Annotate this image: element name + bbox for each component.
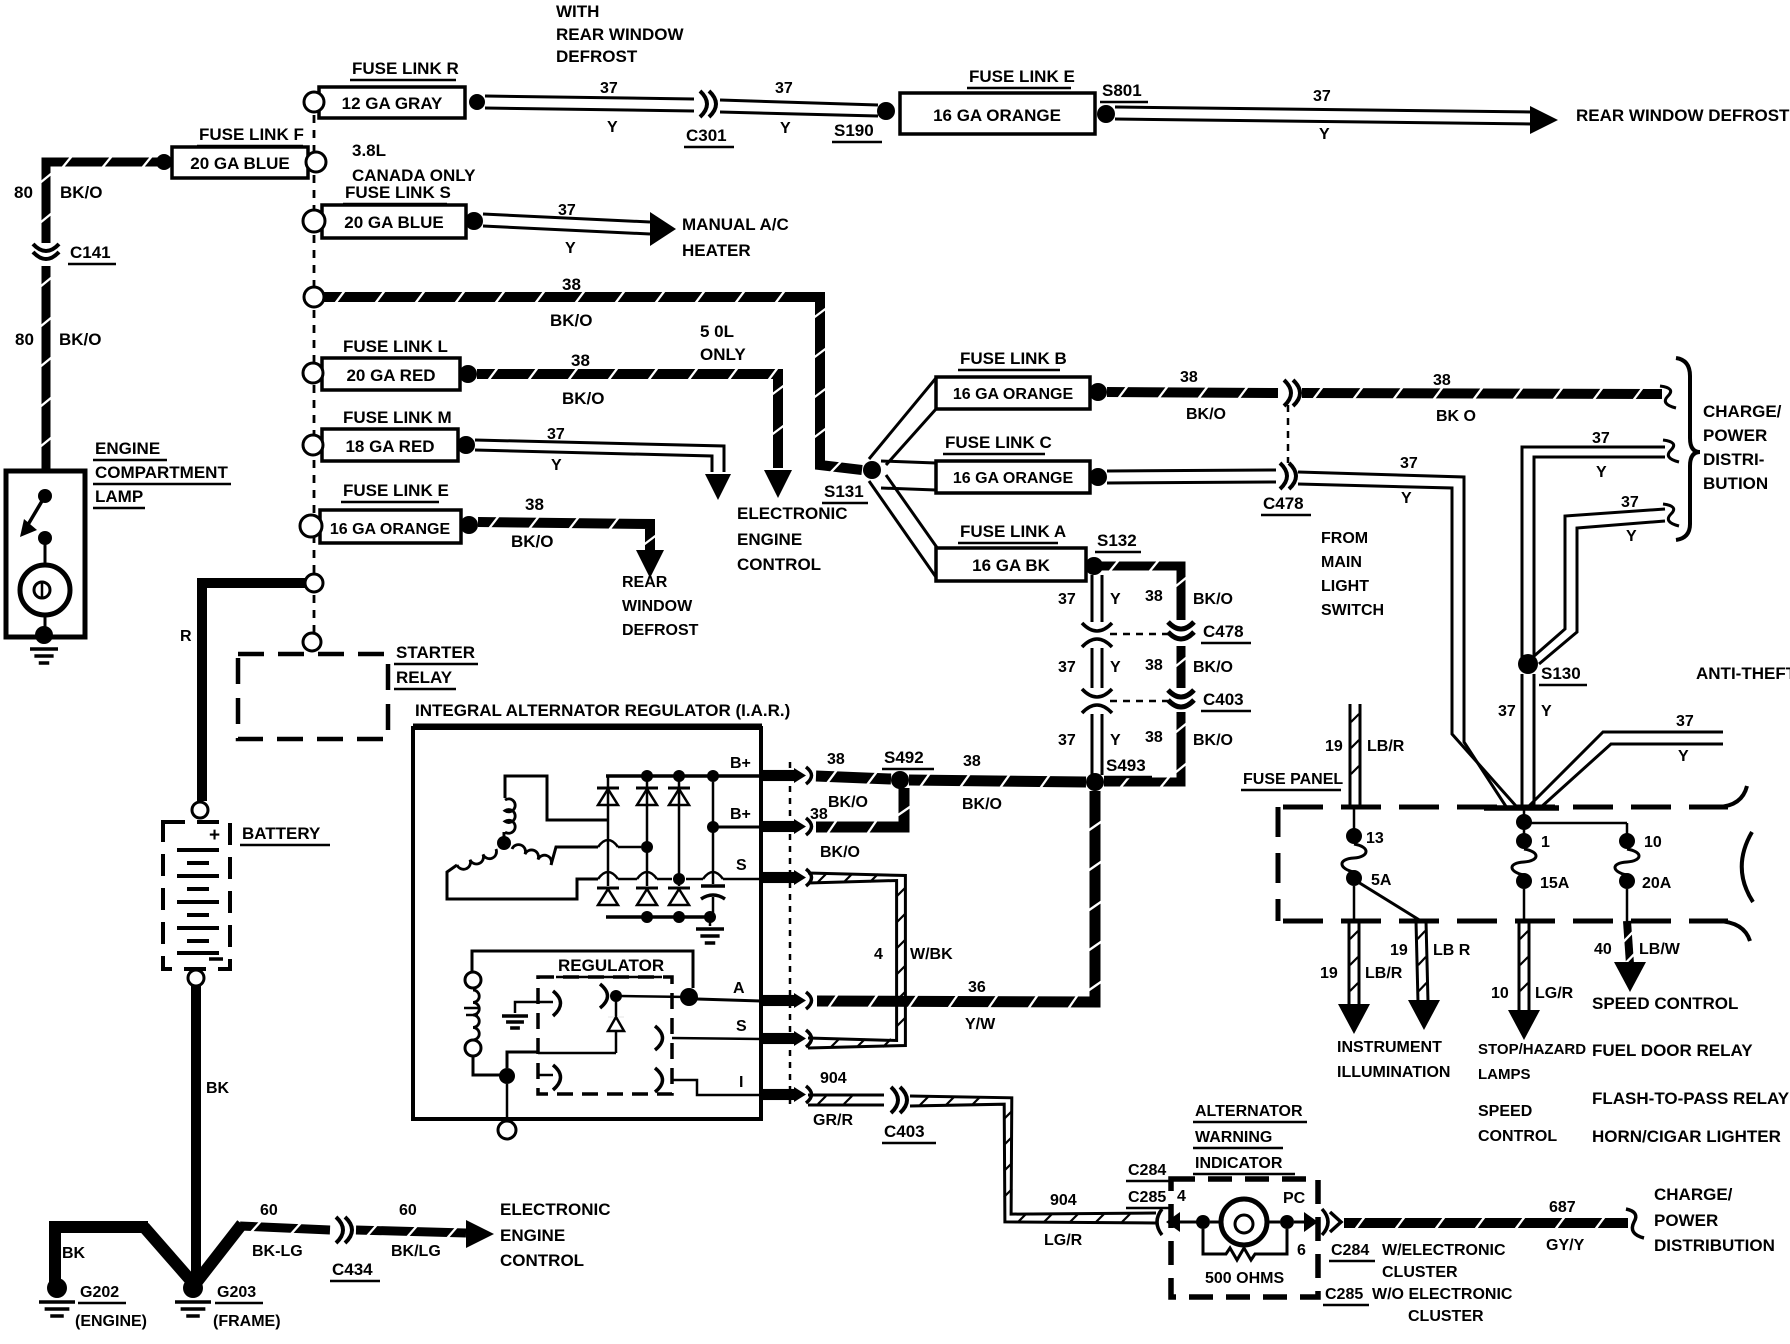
svg-text:FUSE LINK C: FUSE LINK C [945,433,1052,452]
label C478 [1261,494,1311,515]
svg-text:REAR: REAR [622,574,668,591]
svg-text:37: 37 [775,80,793,97]
label S131 [822,482,868,503]
wire 37 Y S130 down to funnel [1522,674,1534,808]
wire 19 LB/R into fuse panel [1350,704,1360,806]
svg-text:38: 38 [562,275,581,294]
arrow to manual AC heater [650,212,676,246]
svg-text:4: 4 [874,946,883,963]
svg-text:BK: BK [62,1245,86,1262]
dashed link C478 between connectors [1287,405,1290,463]
svg-text:BK/O: BK/O [828,794,868,811]
ring terminal battery positive [192,802,208,818]
label S493 [1104,756,1152,777]
label 37 Y rear defrost [1313,88,1331,143]
label C434 [330,1260,380,1281]
svg-text:38: 38 [1180,369,1198,386]
svg-text:C478: C478 [1263,494,1304,513]
end hook 687 wire [1626,1209,1644,1238]
note 3.8L CANADA ONLY [352,141,476,185]
junction dot fuse link E left output [460,516,478,534]
svg-text:W/ELECTRONIC: W/ELECTRONIC [1382,1242,1506,1259]
A terminal junction dot [680,988,698,1006]
svg-text:687: 687 [1549,1199,1576,1216]
label 38 BK/O main bus [550,275,593,330]
ground G202 [39,1278,75,1316]
connector dashed line at IAR terminals [789,762,792,1108]
svg-text:FUSE PANEL: FUSE PANEL [1243,771,1343,788]
label FUEL DOOR RELAY [1592,1041,1753,1060]
regulator diode [538,1001,624,1053]
label S492 [882,748,934,769]
regulator ground [502,1002,553,1028]
end hook wire A [1663,440,1679,462]
svg-text:C285: C285 [1128,1189,1166,1206]
svg-text:C403: C403 [1203,690,1244,709]
label 37 Y above funnel [1498,703,1552,720]
svg-text:10: 10 [1644,834,1662,851]
svg-text:STARTER: STARTER [396,643,475,662]
field coil [464,990,480,1040]
label 37 Y wire A [1592,430,1610,481]
engine compartment lamp box [6,471,85,637]
svg-text:CLUSTER: CLUSTER [1408,1308,1484,1325]
label 38 BK O right [1433,372,1476,425]
svg-text:SPEED: SPEED [1478,1103,1532,1120]
label 19 LB/R input [1325,738,1405,755]
phase junction dots [641,841,685,885]
svg-text:REAR WINDOW DEFROST: REAR WINDOW DEFROST [1576,106,1790,125]
svg-text:LB/W: LB/W [1639,941,1681,958]
svg-text:POWER: POWER [1654,1211,1718,1230]
svg-text:FUSE LINK L: FUSE LINK L [343,337,448,356]
svg-text:BK: BK [206,1080,230,1097]
svg-text:FROM: FROM [1321,530,1368,547]
label REAR WINDOW DEFROST [1576,106,1790,125]
svg-text:A: A [733,980,745,997]
ring terminal fuse link M [303,435,323,455]
svg-text:37: 37 [1498,703,1516,720]
label 37 Y after C478 [1400,455,1418,507]
svg-text:904: 904 [1050,1192,1077,1209]
svg-text:B+: B+ [730,755,751,772]
label BK ground bus [62,1245,86,1262]
wire to F terminal ring [506,1084,509,1121]
svg-text:80: 80 [15,330,34,349]
labels 37 Y 38 BK/O row2 [1058,657,1233,676]
wire 38 BK/O main bus to S131 [324,291,862,472]
svg-text:C284: C284 [1128,1162,1166,1179]
label 904 LG/R [1044,1192,1083,1249]
svg-text:C434: C434 [332,1260,373,1279]
fuse link S label [343,183,451,204]
labels 37 Y 38 BK/O row3 [1058,729,1233,749]
junction dot fuse link S output [465,212,483,230]
svg-text:38: 38 [1145,729,1163,746]
svg-text:CLUSTER: CLUSTER [1382,1264,1458,1281]
svg-text:37: 37 [1592,430,1610,447]
branch to fuse 10 [1530,823,1627,834]
label FLASH-TO-PASS RELAY [1592,1089,1790,1108]
svg-text:SWITCH: SWITCH [1321,602,1384,619]
wire 38 BK/O fuse link E to rear defrost [478,516,656,550]
label FROM MAIN LIGHT SWITCH [1321,530,1384,619]
svg-text:Y: Y [551,457,562,474]
label 37 Y anti-theft [1676,713,1694,765]
svg-text:ENGINE: ENGINE [95,439,160,458]
svg-text:BUTION: BUTION [1703,474,1768,493]
label HORN/CIGAR LIGHTER [1592,1127,1781,1146]
svg-text:ENGINE: ENGINE [500,1226,565,1245]
ring terminal 38 BK/O bus [304,287,324,307]
svg-text:BK O: BK O [1436,408,1476,425]
label INSTRUMENT ILLUMINATION [1337,1039,1450,1081]
wire 37 Y S130 to charge distribution [1522,447,1665,664]
rectifier bottom rail [606,911,716,923]
label 19 LB/R output1 [1320,965,1403,982]
svg-text:CONTROL: CONTROL [500,1251,584,1270]
label BATTERY [240,824,330,845]
svg-text:LB/R: LB/R [1367,738,1405,755]
svg-text:S130: S130 [1541,664,1581,683]
svg-text:904: 904 [820,1070,847,1087]
svg-text:Y: Y [1626,528,1637,545]
label SPEED CONTROL left [1478,1103,1557,1145]
svg-text:60: 60 [399,1202,417,1219]
svg-text:38: 38 [810,806,828,823]
svg-text:WINDOW: WINDOW [622,598,693,615]
svg-text:(ENGINE): (ENGINE) [75,1313,147,1330]
label 19 LB R output2 [1390,942,1471,959]
svg-text:38: 38 [963,753,981,770]
svg-text:FUEL DOOR RELAY: FUEL DOOR RELAY [1592,1041,1753,1060]
svg-text:CONTROL: CONTROL [737,555,821,574]
ring terminal fuse link S [303,210,325,232]
svg-text:16 GA ORANGE: 16 GA ORANGE [330,521,451,538]
connector C403 thin break [1082,689,1112,713]
ring terminal R wire at bus [305,574,323,592]
label C284 C285 left [1126,1162,1170,1208]
fuse link B 16 GA ORANGE [936,377,1090,409]
svg-text:BK/O: BK/O [820,844,860,861]
svg-text:BATTERY: BATTERY [242,824,321,843]
svg-text:FUSE LINK M: FUSE LINK M [343,408,452,427]
fuse link E 16 GA ORANGE left [320,510,461,543]
svg-text:BK/O: BK/O [511,532,554,551]
svg-text:G203: G203 [217,1284,256,1301]
rectifier top rail [606,770,761,782]
svg-text:BK/O: BK/O [59,330,102,349]
arrow fuse link M to EEC [705,474,731,500]
svg-text:20 GA BLUE: 20 GA BLUE [190,154,290,173]
wire BK battery to ground [191,986,201,1280]
svg-text:MAIN: MAIN [1321,554,1362,571]
label BK battery [206,1080,230,1097]
svg-text:HORN/CIGAR LIGHTER: HORN/CIGAR LIGHTER [1592,1127,1781,1146]
label C284 W/ELECTRONIC CLUSTER [1329,1242,1506,1281]
junction dot S801 [1097,105,1115,123]
svg-text:BK/O: BK/O [1193,659,1233,676]
rectifier diode columns [597,776,690,905]
connector C478 thin break [1082,623,1112,647]
wire 904 GR/R I terminal to C403 [808,1095,884,1105]
wire 80 BK/O below C141 [41,266,52,471]
junction dot fuse link R output [469,94,485,110]
label 1 [1541,834,1550,851]
svg-text:40: 40 [1594,941,1612,958]
wire 37 Y from C301 to S190 [720,100,878,116]
A junction to terminal [697,999,761,1001]
svg-text:CONTROL: CONTROL [1478,1128,1557,1145]
connector C403 I wire [891,1087,907,1113]
svg-text:Y/W: Y/W [965,1016,996,1033]
svg-text:Y: Y [1401,490,1412,507]
svg-text:BK/O: BK/O [962,796,1002,813]
pin label 6 [1297,1242,1306,1259]
svg-text:20 GA RED: 20 GA RED [346,366,435,385]
svg-text:C141: C141 [70,243,111,262]
fuse link F 20 GA BLUE [172,147,308,178]
ring terminal battery negative [188,970,204,986]
arrow to EEC bottom [466,1220,494,1248]
svg-text:Y: Y [1541,703,1552,720]
indicator resistor 500 ohms [1203,1229,1287,1260]
indicator bulb [1196,1199,1304,1245]
svg-text:S132: S132 [1097,531,1137,550]
svg-text:W/BK: W/BK [910,946,953,963]
svg-text:R: R [180,628,192,645]
lamp bulb [20,565,70,628]
label 37 Y second segment [775,80,793,137]
fuse link L label [341,337,448,358]
svg-text:ELECTRONIC: ELECTRONIC [500,1200,611,1219]
label 10 fuse [1644,834,1662,851]
svg-text:Y: Y [1110,591,1121,608]
svg-text:INSTRUMENT: INSTRUMENT [1337,1039,1442,1056]
label ANTI-THEFT [1696,664,1790,683]
svg-text:S493: S493 [1106,756,1146,775]
svg-text:ILLUMINATION: ILLUMINATION [1337,1064,1450,1081]
svg-text:BK/LG: BK/LG [391,1243,441,1260]
label ELECTRONIC ENGINE CONTROL bottom [500,1200,611,1270]
svg-text:S131: S131 [824,482,864,501]
regulator transistor T4 and I link [655,1068,761,1095]
svg-text:ALTERNATOR: ALTERNATOR [1195,1103,1303,1120]
connector C434 [336,1217,352,1243]
svg-text:GR/R: GR/R [813,1112,853,1129]
label 500 OHMS [1205,1270,1284,1287]
label 5A [1371,872,1392,889]
svg-text:BK-LG: BK-LG [252,1243,303,1260]
F terminal ring [498,1121,516,1139]
label 687 GY/Y [1546,1199,1585,1254]
ring terminal fuse link R [304,92,324,112]
svg-text:19: 19 [1325,738,1343,755]
svg-text:S: S [736,1018,747,1035]
regulator transistor T5 [538,1065,561,1090]
svg-text:BK/O: BK/O [1193,591,1233,608]
fuse link C 16 GA ORANGE [936,461,1090,493]
svg-text:CHARGE/: CHARGE/ [1703,402,1782,421]
regulator transistor T2 and A link [600,984,689,1008]
label 38 BK/O fuse link L [562,351,605,408]
fuse link R 12 GA GRAY [319,87,465,118]
S131 fan branches [869,378,938,580]
label 80 BK/O lower [15,330,102,349]
wire 37 Y to C301 [485,96,694,111]
wire 80 BK/O from fuse link F to engine compartment lamp [41,157,164,244]
svg-text:BK/O: BK/O [60,183,103,202]
stator coil left [447,849,598,899]
svg-text:WARNING: WARNING [1195,1129,1272,1146]
terminal S lower [736,1018,812,1047]
terminal I [739,1074,812,1103]
svg-text:G202: G202 [80,1284,119,1301]
svg-text:13: 13 [1366,830,1384,847]
arrow instrument illumination 2 [1408,1000,1440,1030]
label FUSE PANEL [1241,771,1343,790]
svg-text:16 GA ORANGE: 16 GA ORANGE [953,470,1074,487]
svg-text:ENGINE: ENGINE [737,530,802,549]
rectifier ground [696,917,724,943]
svg-text:37: 37 [1058,591,1076,608]
svg-text:12 GA GRAY: 12 GA GRAY [342,94,443,113]
connector chevrons on 38 column at C478 [1168,622,1194,639]
label STARTER RELAY [394,643,478,689]
charge power distribution brace [1676,358,1700,540]
fuse link M label [341,408,452,429]
alternator warning indicator dashed box [1171,1179,1318,1297]
svg-text:LG/R: LG/R [1535,985,1574,1002]
svg-text:DISTRIBUTION: DISTRIBUTION [1654,1236,1775,1255]
wire 38 BK/O S132 down to S493 [1098,561,1187,788]
ground G203 [175,1278,211,1316]
arrow stop hazard [1508,1010,1540,1040]
svg-text:LB/R: LB/R [1365,965,1403,982]
svg-text:ELECTRONIC: ELECTRONIC [737,504,848,523]
junction dot fuse link L output [459,365,477,383]
wire 10 LG/R stop hazard [1519,921,1529,1010]
label CHARGE/POWER DISTRI-BUTION [1703,402,1782,493]
connector C141 [33,244,59,259]
wire 19 LB R second [1416,921,1428,1002]
arrow speed control [1614,962,1646,992]
note WITH REAR WINDOW DEFROST [556,2,684,66]
fuse 1 15A [1512,822,1536,921]
svg-text:GY/Y: GY/Y [1546,1237,1585,1254]
fuse 10 20A [1615,833,1639,921]
svg-text:BK/O: BK/O [1193,732,1233,749]
svg-text:16 GA ORANGE: 16 GA ORANGE [953,386,1074,403]
stator coil right [512,845,598,865]
svg-text:Y: Y [1596,464,1607,481]
junction dot S132 [1085,557,1103,575]
fuse link S 20 GA BLUE [322,205,466,238]
svg-text:16 GA BK: 16 GA BK [972,556,1051,575]
svg-text:37: 37 [1400,455,1418,472]
label 80 BK/O upper [14,183,103,202]
label 15A [1540,875,1570,892]
wire 37 Y S130 branch B [1533,509,1665,664]
label 38 BK/O B+2 [810,806,860,861]
svg-text:DEFROST: DEFROST [556,47,638,66]
svg-text:80: 80 [14,183,33,202]
label C403 I wire [882,1122,936,1143]
field circuit top wire [472,951,693,988]
svg-text:20 GA BLUE: 20 GA BLUE [344,213,444,232]
svg-text:Y: Y [780,120,791,137]
label 20A [1642,875,1672,892]
end hook wire B [1663,504,1679,526]
terminal A [733,980,812,1009]
svg-text:37: 37 [547,426,565,443]
label MANUAL A/C HEATER [682,215,789,260]
wire 60 BK/LG from C434 [356,1225,466,1238]
fuse link A 16 GA BK [936,548,1086,581]
label C141 [68,243,116,264]
label 904 GR/R [813,1070,853,1129]
svg-text:37: 37 [558,202,576,219]
svg-text:Y: Y [1110,732,1121,749]
arrow fuse link E to rear defrost [636,550,664,578]
lamp switch [20,489,52,566]
svg-text:37: 37 [1676,713,1694,730]
svg-text:BK/O: BK/O [550,311,593,330]
svg-text:38: 38 [571,351,590,370]
fuse link E label top [967,67,1075,88]
svg-text:19: 19 [1320,965,1338,982]
wire R battery to bus [202,583,306,801]
svg-text:REGULATOR: REGULATOR [558,956,664,975]
wire 37 Y from C478 down to fuse panel [1298,472,1516,808]
svg-text:ANTI-THEFT: ANTI-THEFT [1696,664,1790,683]
label 40 LB/W [1594,941,1681,958]
wire 19 LB/R instrument illumination [1349,921,1359,1006]
label 10 LG/R [1491,985,1574,1002]
svg-text:S492: S492 [884,748,924,767]
pin label 4 [1177,1188,1186,1205]
connector C301 [700,91,716,117]
terminal S upper [736,857,812,886]
fuse link L 20 GA RED [322,358,460,390]
connector C478 [1280,463,1296,489]
svg-text:20A: 20A [1642,875,1672,892]
svg-text:INTEGRAL ALTERNATOR REGULATOR: INTEGRAL ALTERNATOR REGULATOR (I.A.R.) [415,701,790,720]
svg-text:LAMP: LAMP [95,487,143,506]
label SPEED CONTROL right [1592,994,1738,1013]
wire 38 BK/O B+1 to S492 [816,770,891,784]
note 5.0L ONLY [700,322,746,364]
label battery minus [209,957,223,961]
svg-text:FUSE LINK R: FUSE LINK R [352,59,459,78]
svg-text:1: 1 [1541,834,1550,851]
ring terminal fuse link L [303,363,323,383]
fuse link F label [197,125,304,146]
svg-text:BK/O: BK/O [562,389,605,408]
label 4 W/BK [874,946,953,963]
indicator left connector [1157,1209,1198,1235]
svg-text:3.8L: 3.8L [352,141,386,160]
indicator right connector [1304,1209,1341,1235]
fuse link R label [350,59,459,80]
svg-text:38: 38 [827,751,845,768]
svg-text:WITH: WITH [556,2,599,21]
svg-text:38: 38 [1433,372,1451,389]
label INTEGRAL ALTERNATOR REGULATOR [413,701,790,725]
svg-text:B+: B+ [730,806,751,823]
wire 37 Y fuse link M to EEC [475,440,724,472]
svg-text:S: S [736,857,747,874]
